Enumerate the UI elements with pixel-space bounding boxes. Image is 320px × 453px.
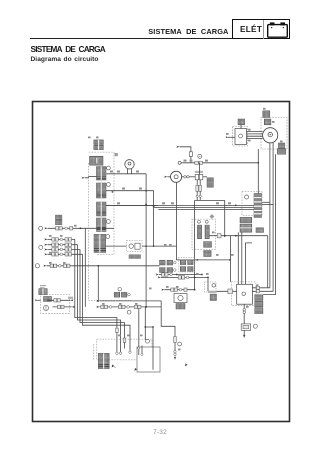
wire side feeder xyxy=(84,228,86,307)
wire into stack top xyxy=(89,176,97,178)
tick battery right 1 xyxy=(257,286,260,289)
circled marker f xyxy=(106,235,110,239)
plug junction box 1 xyxy=(198,220,201,223)
connector C23 xyxy=(277,149,285,155)
connector C4 cluster xyxy=(94,234,106,252)
header tab box ELET xyxy=(232,19,290,39)
connector C12 below regulator xyxy=(240,224,252,232)
connector C13 below regulator xyxy=(256,228,264,233)
junction row 8 xyxy=(145,306,147,308)
cluster B enclosure dashed xyxy=(178,258,195,272)
ignition switch inner block xyxy=(44,297,52,302)
connector C15 xyxy=(210,294,216,300)
connector sleeve left xyxy=(196,185,199,191)
wire fuse to ground xyxy=(243,330,245,335)
circled marker h xyxy=(178,342,182,346)
connector C24 xyxy=(238,119,245,125)
connector stack right xyxy=(255,295,263,301)
fuse labels xyxy=(195,171,203,173)
connector cluster B4 xyxy=(188,267,194,272)
starter relay dashed xyxy=(205,282,217,292)
connector C3 small xyxy=(56,215,62,220)
circled marker 4 xyxy=(198,154,202,158)
plug w1 xyxy=(116,352,118,354)
wire feeder v2 xyxy=(153,191,155,207)
circled marker a xyxy=(107,166,111,170)
wire relay out xyxy=(142,245,177,247)
stator unit enclosure (dashed) xyxy=(233,127,248,147)
page subtitle xyxy=(31,56,99,63)
junction feeder v1 low xyxy=(145,306,147,308)
wire tail lead xyxy=(161,301,175,356)
bus wire 3 xyxy=(158,209,254,211)
bus wire 1 xyxy=(106,204,254,206)
connector stack block 4 xyxy=(97,218,107,232)
connector cluster B2 xyxy=(188,260,194,265)
wire row stack3 out xyxy=(106,205,158,207)
connector cluster A2 xyxy=(167,260,173,265)
battery icon xyxy=(233,20,289,39)
connector C16 cluster xyxy=(114,292,120,297)
wire regulator stub 2 xyxy=(262,203,273,205)
wire row 1 xyxy=(44,238,47,240)
header rule xyxy=(30,38,232,39)
junction box lower block 2 xyxy=(204,251,211,257)
wire row 5 drop xyxy=(97,266,99,302)
wire relay link xyxy=(177,182,231,260)
diagram border frame xyxy=(33,102,290,422)
connector stack block 2 xyxy=(97,183,107,198)
pickup box xyxy=(137,347,160,372)
wire 3-phase c xyxy=(247,135,263,137)
wire harness right edge xyxy=(224,200,226,237)
plug w4 xyxy=(129,351,131,353)
connector stack block 1 xyxy=(97,167,107,181)
ground arrow CDI left xyxy=(112,365,115,368)
wire row 8 xyxy=(100,306,162,308)
row 0 arrow xyxy=(44,227,47,229)
row 8 arrow xyxy=(96,306,99,308)
fuse main F1b xyxy=(199,174,202,179)
wire dual feed right xyxy=(199,180,201,200)
wire row 6a xyxy=(159,274,202,276)
wire row 0 xyxy=(48,227,115,229)
wire magneto leg 1 xyxy=(269,143,271,288)
circled marker j xyxy=(118,288,121,291)
plug w2 xyxy=(119,352,121,354)
junction box lower block xyxy=(204,242,212,248)
junction box enclosure dashed xyxy=(192,219,215,249)
plug pickup lead 1 xyxy=(138,347,140,349)
junction relay out 1 xyxy=(145,245,147,247)
connector C22 xyxy=(278,143,284,149)
connector on sense wire xyxy=(217,234,221,238)
junction starter lead xyxy=(207,277,209,279)
connector pair on top distribution xyxy=(195,161,198,164)
wire 3-phase a xyxy=(247,131,263,133)
wire feeder v2 lower xyxy=(153,207,155,247)
wire to main fuse xyxy=(243,313,245,324)
regulator connector column xyxy=(254,194,262,218)
circled marker 6 xyxy=(212,284,215,287)
sleeve on tail lead xyxy=(174,337,177,343)
lighting feed arrow xyxy=(96,300,99,302)
wire switch to fuse xyxy=(182,176,196,178)
wire bundle w3 xyxy=(80,250,125,349)
fuse F2 xyxy=(189,152,192,157)
wire row 7 xyxy=(165,289,195,291)
AC magneto generator circle xyxy=(263,128,278,143)
junction row 6a xyxy=(176,274,178,276)
wire top distribution xyxy=(181,162,258,164)
wire battery negative xyxy=(243,304,245,308)
horn unit box xyxy=(174,294,187,303)
junction row 6b xyxy=(194,277,196,279)
ground arrow tail xyxy=(174,357,176,360)
wire regulator stub 1 xyxy=(262,201,270,203)
relay enclosure dashed xyxy=(127,241,143,252)
wire row 3 xyxy=(44,248,47,250)
stack feed arrow xyxy=(82,177,85,179)
header running title xyxy=(0,27,229,36)
wire row 2 xyxy=(44,244,47,246)
battery box xyxy=(237,284,253,304)
circled marker 7 xyxy=(253,324,257,328)
connector C20 xyxy=(263,111,270,118)
terminal ring xyxy=(178,161,181,164)
wire magneto box feeder xyxy=(257,149,259,205)
wire lighting feed xyxy=(100,300,162,302)
junction row 0 xyxy=(80,227,82,229)
wire switch out 2 xyxy=(53,306,72,308)
junction row 5 xyxy=(97,265,99,267)
junction relay out 2 xyxy=(153,245,155,247)
rectifier/regulator enclosure xyxy=(242,192,262,216)
connector stack block 3 xyxy=(97,202,107,216)
connector sleeve right xyxy=(199,185,202,191)
wire right loop down xyxy=(267,236,269,288)
junction feeder v2 xyxy=(153,206,155,208)
fuse riser xyxy=(199,163,201,175)
plug pair battery negative xyxy=(243,308,245,310)
circled marker i xyxy=(146,339,150,343)
junction on feeder xyxy=(257,162,259,164)
circled switch symbol xyxy=(43,305,48,310)
diamond marker xyxy=(209,214,214,219)
connector cluster A3 xyxy=(160,268,166,273)
CDI connector cluster xyxy=(98,353,109,368)
junction feeder v1 xyxy=(145,204,147,206)
battery sense wire xyxy=(210,235,268,237)
wire harness left edge xyxy=(194,200,196,290)
wire to relay xyxy=(106,245,127,247)
circled marker d xyxy=(39,226,43,230)
junction sense 1 xyxy=(224,235,226,237)
wire battery right 1 xyxy=(252,287,270,289)
wire stator left lead xyxy=(228,136,235,138)
arrow switch out 2 xyxy=(72,306,75,308)
page title xyxy=(31,45,105,54)
wire battery right 2 xyxy=(252,290,273,292)
wire lamp leg 2 xyxy=(130,169,132,174)
AC magneto enclosure (dashed) xyxy=(261,118,287,150)
tab divider xyxy=(263,20,264,39)
wire feeder v1 lower xyxy=(145,204,147,307)
relay coil circle xyxy=(129,244,133,248)
wire starter lead xyxy=(207,277,209,291)
main switch circle xyxy=(171,171,182,182)
plug pair tail lead xyxy=(174,351,176,353)
arrow switch out 1 xyxy=(70,299,73,301)
label tag 3 xyxy=(115,153,118,156)
wire switch left stub xyxy=(38,299,41,301)
circled marker 5 xyxy=(245,195,249,199)
wire lamp leg 1 xyxy=(127,169,129,174)
wire cross link xyxy=(145,327,153,370)
wire row 5 long xyxy=(43,265,46,267)
ground arrow CDI mid xyxy=(135,368,138,371)
connector C14 below horn xyxy=(176,304,185,310)
plug pair on switch wire xyxy=(184,176,186,178)
plug junction box 2 xyxy=(205,220,208,223)
wire bundle w1 xyxy=(75,239,117,352)
wire regulator pin down 2 xyxy=(241,232,243,284)
connector cluster B3 xyxy=(180,267,186,272)
bus wire 2 xyxy=(154,207,254,209)
wire row 6b xyxy=(161,276,208,278)
row 6a arrow xyxy=(156,273,159,275)
junction sense 2 xyxy=(235,235,237,237)
relay label xyxy=(129,255,141,259)
circled marker 2 xyxy=(39,245,43,249)
main switch feed arrow xyxy=(164,176,167,178)
wire regulator pin down 3 xyxy=(245,243,252,284)
plug on dual feed xyxy=(196,195,198,197)
junction row 7 xyxy=(194,289,196,291)
wire magneto leg 2 xyxy=(272,143,274,291)
wire fuse to bus xyxy=(190,156,192,162)
wire battery left xyxy=(208,290,237,292)
main fuse box xyxy=(241,324,251,330)
connector C2 cluster xyxy=(90,156,104,165)
wire lamp row xyxy=(107,173,147,175)
tick battery right 2 xyxy=(257,290,260,293)
connector C21 xyxy=(264,119,271,125)
wire colour code labels xyxy=(40,108,283,350)
ground arrow right of box xyxy=(185,364,188,367)
row 6b arrow xyxy=(158,276,161,278)
sleeve on w1 xyxy=(116,328,119,332)
harness dashed left xyxy=(89,163,132,301)
arrow switch left xyxy=(35,299,38,301)
ignition switch enclosure dashed xyxy=(41,295,70,314)
ground arrow battery xyxy=(243,335,245,338)
connector cluster A4 xyxy=(167,268,173,273)
wire 3-phase b xyxy=(247,133,263,135)
indicator lamp circle xyxy=(125,160,134,169)
wire pickup lead 1 xyxy=(138,309,140,355)
junction cross link xyxy=(152,326,154,328)
circled marker b xyxy=(107,183,111,187)
meter assembly dashed boundary xyxy=(89,152,114,255)
page number xyxy=(0,429,320,436)
label switch out xyxy=(68,297,73,299)
plug cluster A lower xyxy=(174,269,177,272)
fuse feed arrow xyxy=(176,146,179,148)
wire harness drop xyxy=(230,236,232,282)
wire row 4 xyxy=(44,253,47,255)
row 7 arrow xyxy=(161,289,164,291)
CDI enclosure dashed xyxy=(97,339,152,360)
connector mating gaps xyxy=(43,140,262,369)
wire feeder v1 xyxy=(145,174,147,205)
relay contact box xyxy=(135,243,140,249)
wire row meter out xyxy=(106,190,154,192)
ignition switch connector xyxy=(39,289,47,295)
wire regulator pin down 1 xyxy=(237,232,239,284)
wire 3-phase d xyxy=(247,138,263,140)
connector C1 cluster xyxy=(94,140,104,145)
battery enclosure dashed xyxy=(231,282,256,305)
connector pin stripes xyxy=(94,177,109,367)
label above C15 xyxy=(208,291,217,293)
wire magneto leg 3 xyxy=(263,154,275,294)
junction harness drop xyxy=(229,259,231,261)
circled marker g xyxy=(127,310,131,314)
connector cluster B1 xyxy=(180,260,186,265)
junction meter row xyxy=(145,190,147,192)
circled marker e xyxy=(35,264,39,268)
dashed stub bottom left xyxy=(93,344,95,360)
plug pickup lead 2 xyxy=(141,353,143,355)
circled marker c xyxy=(107,220,111,224)
wire fuse feed xyxy=(180,147,191,152)
wire bundle w2 xyxy=(78,245,121,352)
connector on battery left xyxy=(228,289,233,294)
wire harness top edge xyxy=(195,199,225,201)
rectifier unit box xyxy=(235,129,247,145)
fuse main F1 xyxy=(195,174,198,179)
junction relay link xyxy=(196,259,198,261)
wire switch out 1 xyxy=(47,299,70,301)
connector cluster A1 xyxy=(160,260,166,265)
junction drop feeder xyxy=(144,326,146,328)
junction box connector column 2 xyxy=(205,225,209,239)
wire fuse right xyxy=(203,176,207,178)
ground arrow left of stator xyxy=(226,136,229,138)
sleeve on w3 xyxy=(123,338,126,342)
connector C10 xyxy=(207,178,213,187)
junction bus-regulator xyxy=(235,205,237,207)
junction box connector column 1 xyxy=(197,225,201,239)
wire pickup lead 2 xyxy=(141,346,143,354)
plug cluster A xyxy=(174,261,177,264)
wire drop feeder xyxy=(144,307,146,340)
connector C11 below regulator xyxy=(240,217,252,222)
wire dual feed left xyxy=(196,180,198,200)
wire bundle w4 xyxy=(83,254,131,351)
